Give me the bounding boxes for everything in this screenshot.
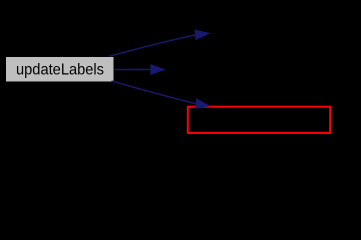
svg-text:updateLabels: updateLabels xyxy=(16,62,104,79)
edge to red node (arrow 3) xyxy=(112,81,196,104)
arrowhead 3 xyxy=(195,99,209,108)
edge to middle-right node (arrow 2, horizontal) xyxy=(114,69,151,71)
arrowhead 1 xyxy=(195,30,209,39)
red-outlined node (truncated callee, black interior) xyxy=(188,107,330,133)
node updateLabels (grey filled box) xyxy=(6,57,115,83)
arrowhead 2 xyxy=(151,65,165,75)
edge to top-right node (arrow 1) xyxy=(110,35,196,56)
